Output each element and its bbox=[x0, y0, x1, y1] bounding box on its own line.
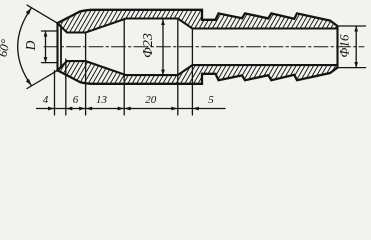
node Phi16 dimension line bbox=[355, 26, 357, 68]
node D arrow up bbox=[44, 31, 48, 37]
node outer profile bottom bbox=[58, 68, 338, 84]
node inner bore bottom bbox=[58, 61, 338, 75]
node 60 degree arc bbox=[18, 8, 32, 86]
node outer profile top bbox=[58, 10, 338, 26]
svg-text:6: 6 bbox=[73, 94, 79, 106]
node 60 arc arrow bottom bbox=[26, 79, 32, 86]
node bottom wall hatched section bbox=[58, 61, 338, 84]
node chain arrows bbox=[48, 107, 199, 111]
svg-text:Φ16: Φ16 bbox=[337, 34, 352, 57]
node D extension bottom bbox=[42, 62, 57, 64]
svg-text:D: D bbox=[23, 40, 38, 51]
node ext 124.2 bbox=[123, 19, 125, 116]
node 60 arc arrow top bbox=[26, 8, 32, 15]
node Phi23 arrow down bbox=[161, 70, 165, 76]
node Phi16 extension top bbox=[339, 25, 366, 27]
node Phi23 arrow up bbox=[161, 20, 165, 26]
node centerline bbox=[44, 46, 364, 48]
svg-text:5: 5 bbox=[208, 94, 214, 106]
node right end face bbox=[336, 26, 338, 68]
node top wall hatched section bbox=[58, 10, 338, 33]
node ext 177.8 bbox=[177, 19, 179, 116]
node chain dim line bbox=[37, 108, 226, 110]
svg-text:13: 13 bbox=[96, 94, 108, 106]
node Phi16 extension bottom bbox=[339, 67, 366, 69]
node inner bore top bbox=[58, 19, 338, 33]
node ext 85.6 bbox=[85, 33, 87, 115]
svg-text:Φ23: Φ23 bbox=[141, 33, 156, 58]
node Phi16 arrow down bbox=[354, 62, 358, 68]
svg-text:4: 4 bbox=[43, 94, 49, 106]
node Phi23 dimension line bbox=[162, 20, 164, 76]
svg-text:20: 20 bbox=[145, 94, 157, 106]
node ext 192.4 bbox=[191, 29, 193, 116]
node Phi16 arrow up bbox=[354, 26, 358, 32]
node 60 degree cone extension lower bbox=[27, 70, 58, 88]
node ext 65.8 bbox=[65, 59, 67, 115]
node 60 degree cone extension upper bbox=[27, 5, 58, 23]
node left face bbox=[56, 23, 58, 70]
svg-text:60°: 60° bbox=[0, 38, 13, 58]
node D extension top bbox=[42, 30, 57, 32]
node D arrow down bbox=[44, 57, 48, 63]
node ext 54.5 bbox=[54, 71, 56, 116]
node D dimension line bbox=[45, 31, 47, 63]
node face chamfer line bbox=[60, 26, 62, 68]
